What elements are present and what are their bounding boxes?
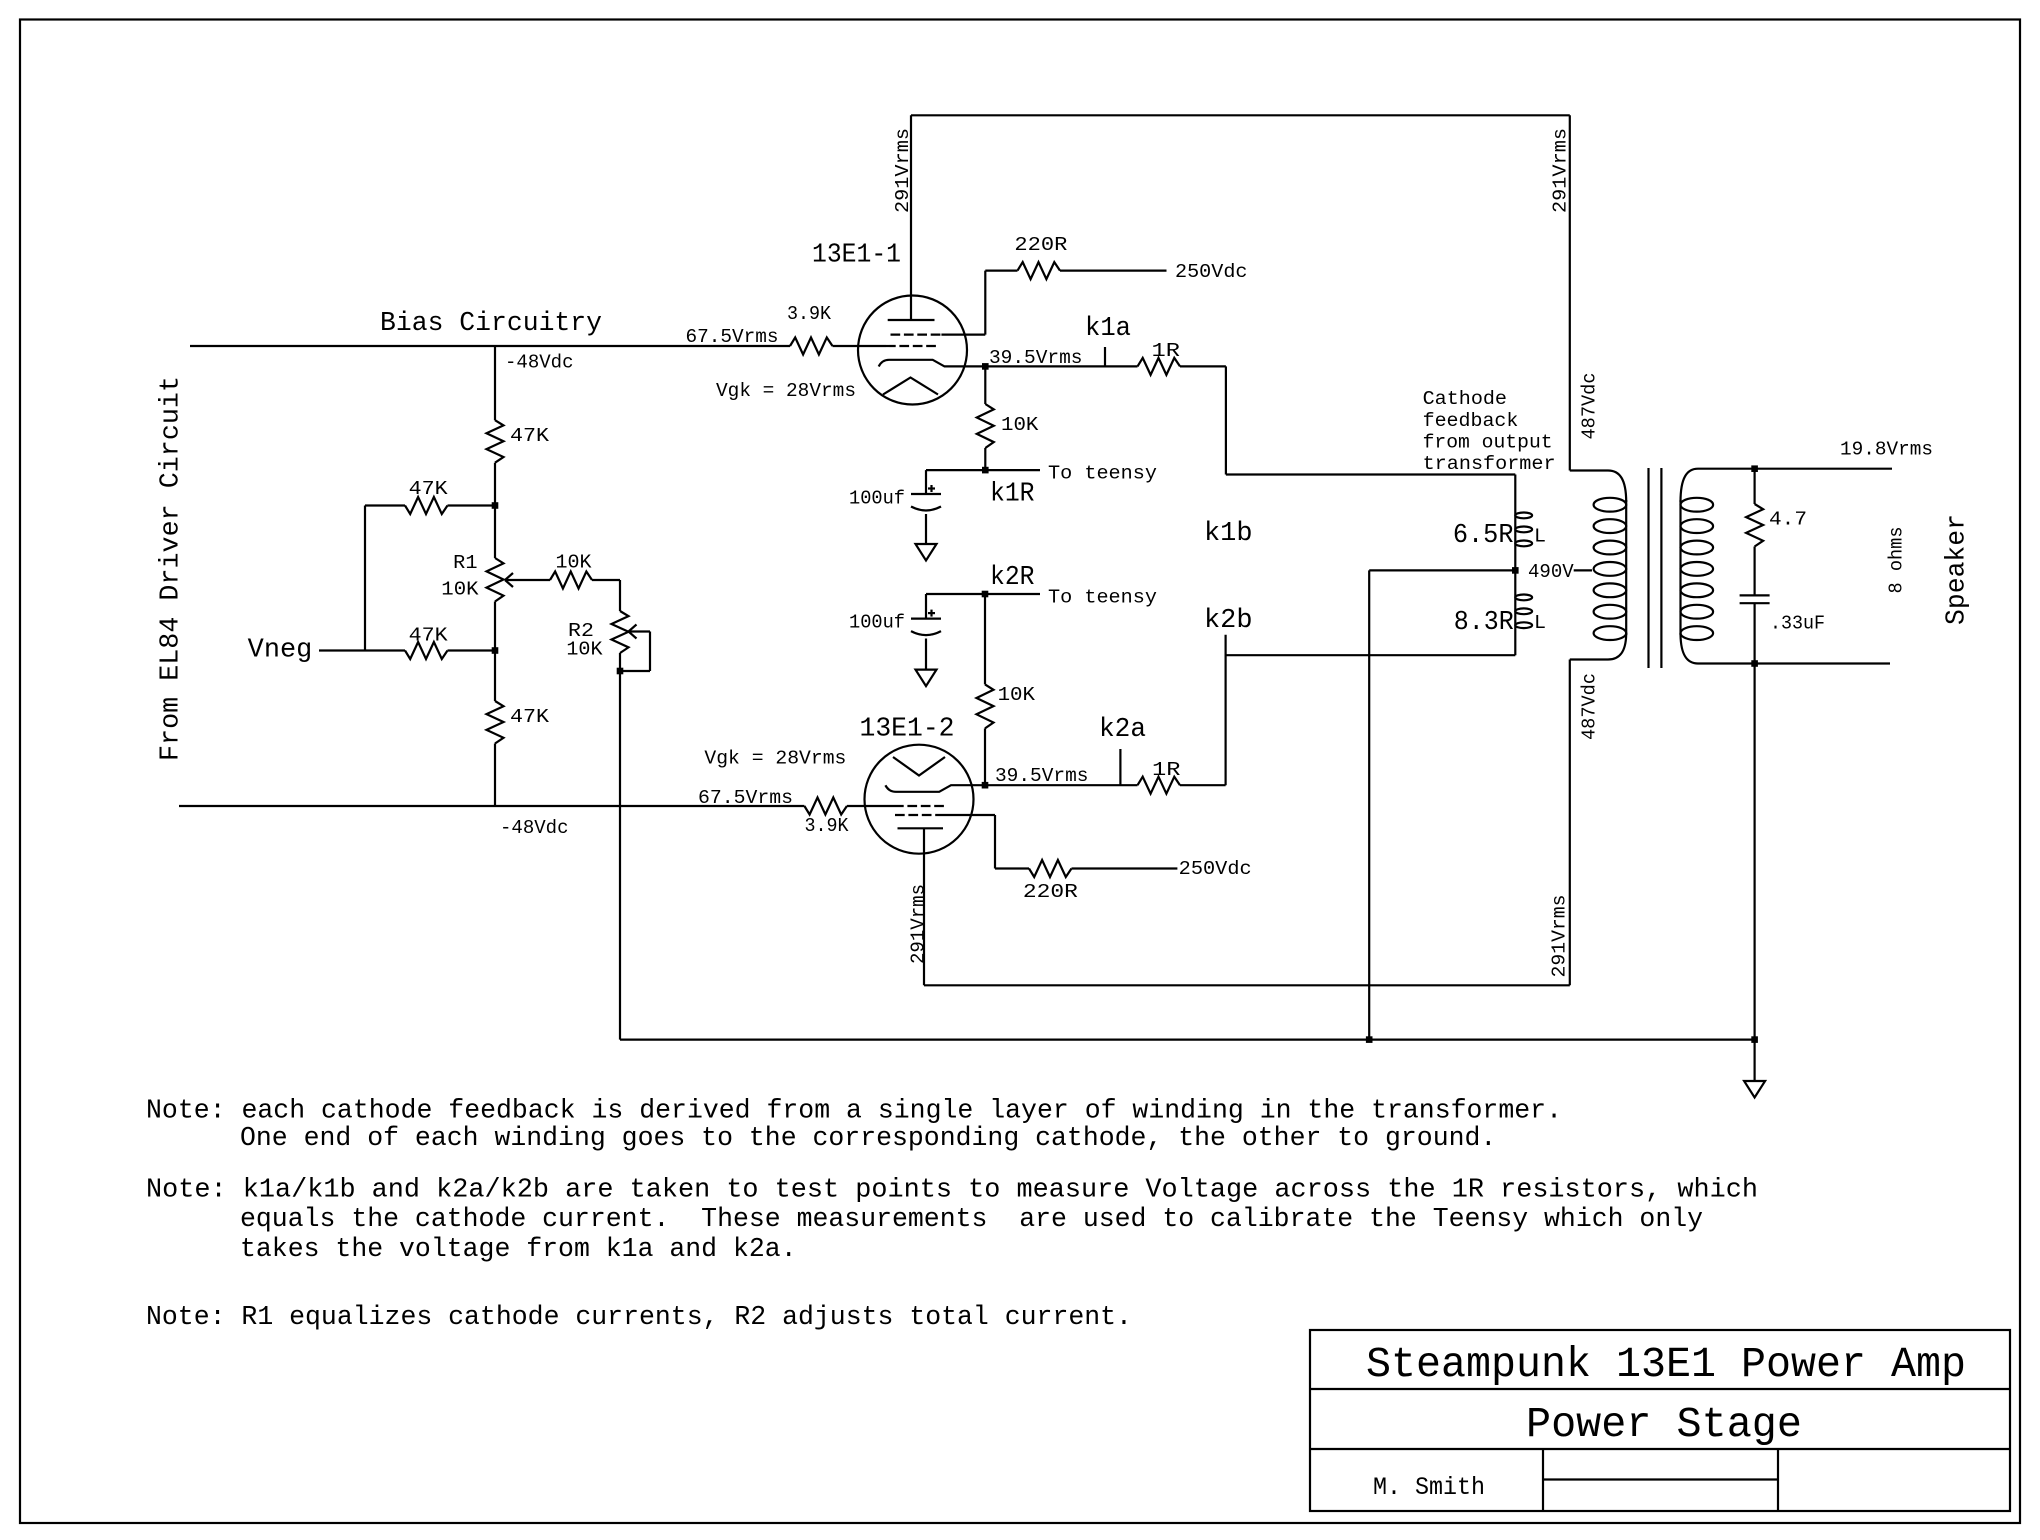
wire feedback tap line [1514,475,1516,656]
wiper arrow R2 loop [629,625,637,639]
junction node bias A [492,502,499,509]
svg-text:takes the voltage from k1a and: takes the voltage from k1a and k2a. [240,1234,797,1264]
title block divider v1 [1542,1449,1544,1511]
svg-text:Cathode: Cathode [1423,388,1507,410]
wire k2b riser [1224,635,1226,786]
svg-text:feedback: feedback [1423,410,1519,432]
resistor 10K tube2 upper lead [984,594,986,684]
wire screen2 to 220R [995,867,1029,869]
wire node k1R horizontal [926,469,1040,471]
svg-text:Note: each cathode feedback is: Note: each cathode feedback is derived f… [146,1096,1562,1126]
junction node feedback-rail [1366,1036,1373,1043]
wire tube1 anode riser [910,115,912,320]
title block divider 1 [1310,1388,2010,1390]
wire secondary top to speaker [1755,468,1892,470]
resistor 47K Vneg horizontal [405,642,448,659]
wire secondary bottom to speaker [1755,662,1890,664]
svg-text:L: L [1534,526,1546,548]
svg-text:One end of each winding goes t: One end of each winding goes to the corr… [240,1123,1496,1153]
svg-text:291Vrms: 291Vrms [908,884,930,964]
svg-text:250Vdc: 250Vdc [1179,858,1252,880]
wire cathode2 to 1R lower [985,784,1138,786]
title block divider v2 [1777,1449,1779,1511]
wire bias divider vertical upper [494,346,496,420]
wire right riser lower [1569,660,1571,986]
resistor 4.7 zobel lead [1753,469,1755,504]
tube1 anode plate [888,319,935,321]
tube1 heater filament [883,378,938,395]
junction node k1R [982,467,989,474]
svg-text:Steampunk 13E1 Power Amp: Steampunk 13E1 Power Amp [1366,1340,1966,1389]
svg-text:10K: 10K [566,639,602,661]
svg-text:291Vrms: 291Vrms [892,128,914,213]
svg-text:Vgk = 28Vrms: Vgk = 28Vrms [716,380,856,402]
capacitor 100uf upper C1 [925,470,927,494]
svg-text:47K: 47K [409,478,448,500]
tube 13E1-1 envelope U1 [858,296,967,405]
svg-text:10K: 10K [998,684,1036,706]
svg-text:47K: 47K [510,706,549,728]
svg-text:Vgk = 28Vrms: Vgk = 28Vrms [704,748,846,770]
svg-text:equals the cathode current. T: equals the cathode current. These measur… [240,1204,1703,1234]
svg-text:Note: R1 equalizes cathode cur: Note: R1 equalizes cathode currents, R2 … [146,1302,1132,1332]
wire tube2 anode drop [923,828,925,985]
resistor 10K tube2 [977,684,994,728]
tube2 heater filament [893,757,945,776]
svg-text:100uf: 100uf [849,488,905,510]
ground symbol cap1 [916,544,937,561]
svg-text:67.5Vrms: 67.5Vrms [686,326,779,348]
svg-text:1R: 1R [1152,759,1181,781]
node k1a tick [1104,347,1106,366]
svg-text:8 ohms: 8 ohms [1886,527,1908,594]
svg-text:19.8Vrms: 19.8Vrms [1840,439,1933,461]
junction node secondary bottom [1751,660,1758,667]
svg-text:291Vrms: 291Vrms [1550,128,1572,213]
wire R1 to Vneg junction [494,602,496,651]
svg-text:-48Vdc: -48Vdc [505,352,574,374]
svg-text:k2R: k2R [990,562,1035,592]
transformer T1 secondary loops [1681,498,1714,512]
resistor 47K bottom vertical [487,701,504,744]
resistor 10K tube1 cathode upper lead [984,366,986,404]
wire screen to 220R [985,270,1017,272]
junction node rail-ground [1751,1036,1758,1043]
junction node tube1 cathode [982,363,989,370]
junction node k2R [982,591,989,598]
svg-text:6.5R: 6.5R [1453,520,1514,550]
svg-text:10K: 10K [556,552,592,574]
svg-text:k1b: k1b [1204,518,1253,548]
wire top B+ rail [911,114,1570,116]
wire left loop vertical [364,506,366,651]
tube1 cathode [879,360,986,367]
wire 47K bottom to lower rail [494,744,496,807]
wire cap to secondary bottom [1753,603,1755,663]
junction node R2 wiper [617,668,624,675]
svg-text:R1: R1 [453,552,477,574]
svg-text:k1R: k1R [990,479,1035,509]
svg-text:transformer: transformer [1423,453,1556,475]
title block divider 2 [1310,1448,2010,1450]
svg-text:291Vrms: 291Vrms [1549,895,1571,978]
tube1 control grid dashed [886,345,936,347]
resistor 10K tube1 cathode [977,404,994,448]
svg-text:220R: 220R [1023,881,1078,903]
wire 10K to R2 corner [592,579,620,581]
svg-text:487Vdc: 487Vdc [1579,373,1601,440]
transformer T1 secondary entry [1681,469,1755,502]
svg-text:To teensy: To teensy [1048,463,1157,485]
svg-text:Speaker: Speaker [1942,514,1972,625]
transformer T1 primary loops [1594,498,1627,512]
winding 6.5R loops [1515,513,1532,519]
title block outer box [1310,1330,2010,1511]
wire ground stub [1753,1040,1755,1081]
resistor 4.7 zobel [1746,504,1763,547]
wire bias lower rail -48Vdc [179,805,804,807]
svg-text:.33uF: .33uF [1770,613,1825,635]
transformer T1 core [1647,468,1649,668]
junction node 490V tap [1512,567,1519,574]
wire right riser to transformer [1569,115,1571,470]
resistor 220R upper [1018,262,1061,279]
svg-text:3.9K: 3.9K [787,303,831,325]
winding 8.3R loops [1515,595,1532,601]
transformer T1 primary spine [1625,500,1627,635]
wire bottom B+ run [924,984,1570,986]
wire Vneg lead [319,649,405,651]
wire 10K to node k1R [984,448,986,470]
svg-text:10K: 10K [1001,414,1039,436]
wire k1b riser [1225,366,1227,474]
svg-text:Vneg: Vneg [248,635,313,665]
resistor 3.9K lower [804,798,847,815]
tube2 anode plate [898,827,944,829]
svg-text:M. Smith: M. Smith [1373,1473,1485,1502]
tube2 control grid dashed [894,805,944,807]
svg-text:39.5Vrms: 39.5Vrms [995,765,1089,787]
svg-text:487Vdc: 487Vdc [1579,673,1601,740]
transformer T1 secondary exit [1681,633,1755,664]
wire k2b to 8.3R winding bottom [1226,654,1516,656]
resistor 1R upper [1138,358,1181,375]
junction node secondary top [1751,465,1758,472]
wire 1R to corner [1180,365,1226,367]
transformer T1 secondary spine [1679,500,1681,635]
resistor 1R lower [1138,777,1181,794]
svg-text:From EL84 Driver Circuit: From EL84 Driver Circuit [156,376,186,761]
transformer T1 primary exit [1570,633,1626,660]
ground symbol cap2 [916,670,937,687]
svg-text:3.9K: 3.9K [805,815,849,837]
capacitor .33uF plates [1740,594,1770,596]
potentiometer R2 10K element [612,611,629,653]
svg-text:L: L [1534,612,1546,634]
wire 220R to 250Vdc lower [1072,867,1178,869]
wire 47K to junction A [448,504,496,506]
svg-text:67.5Vrms: 67.5Vrms [698,787,793,809]
svg-text:1R: 1R [1152,340,1181,362]
wire feedback to ground rail vertical [1368,570,1370,1039]
wire junction B to 47K bottom [494,651,496,702]
svg-text:47K: 47K [510,425,549,447]
wire 4.7 to cap [1753,547,1755,596]
potentiometer R1 10K element [487,558,504,602]
wire tube2 screen lead [943,814,995,816]
svg-text:Bias Circuitry: Bias Circuitry [380,308,602,338]
junction node tube2 cathode [982,782,989,789]
wire 47K to R1 [494,463,496,558]
svg-text:13E1-1: 13E1-1 [812,240,901,270]
title block divider mid [1543,1478,1778,1480]
wire 10K2 to cathode2 [984,728,986,785]
svg-text:100uf: 100uf [849,612,905,634]
wire 490V dash to winding [1574,569,1592,571]
resistor 47K top vertical [487,420,504,463]
svg-text:8.3R: 8.3R [1454,607,1514,637]
svg-text:k2a: k2a [1099,714,1146,744]
wiper arrow R1 [505,573,513,587]
wire cap2 to ground [925,639,927,670]
svg-text:10K: 10K [441,579,479,601]
wire 3.9K to tube2 grid [847,805,894,807]
wire R2 down to ground rail [619,653,621,1040]
svg-text:220R: 220R [1014,234,1067,256]
tube2 cathode [885,785,985,792]
svg-text:To teensy: To teensy [1048,587,1157,609]
tube 13E1-2 envelope U2 [865,745,974,854]
wire ground rail [620,1038,1755,1040]
svg-text:490V: 490V [1528,561,1574,583]
svg-text:Power Stage: Power Stage [1526,1400,1802,1449]
wire 220R to 250Vdc [1060,270,1167,272]
svg-text:k1a: k1a [1085,313,1131,343]
transformer T1 primary entry [1570,471,1626,503]
wire cap1 to ground [925,514,927,544]
junction node Vneg B [492,647,499,654]
wire secondary bottom to ground rail [1753,664,1755,1040]
svg-text:k2b: k2b [1204,605,1253,635]
resistor 220R lower [1029,860,1072,877]
svg-text:-48Vdc: -48Vdc [500,817,569,839]
tube2 screen grid dashed [895,814,943,816]
svg-text:Note: k1a/k1b and k2a/k2b are: Note: k1a/k1b and k2a/k2b are taken to t… [146,1175,1758,1205]
resistor 47K left upper horizontal [405,497,448,514]
svg-text:13E1-2: 13E1-2 [860,714,955,744]
svg-text:250Vdc: 250Vdc [1175,261,1248,283]
svg-text:4.7: 4.7 [1769,509,1807,531]
svg-text:from output: from output [1423,432,1553,454]
ground symbol main [1744,1081,1765,1098]
capacitor 100uf lower C2 [925,594,927,619]
node k2a tick [1119,749,1121,785]
wire k1b to 6.5R winding top [1226,473,1515,475]
tube1 screen grid dashed [891,334,942,336]
svg-text:47K: 47K [409,625,448,647]
wire cathode to 1R upper [985,365,1137,367]
wire 3.9K to tube1 grid [833,345,887,347]
wire bias upper rail -48Vdc [190,345,790,347]
resistor 10K horizontal [550,572,592,589]
wire node k2R horizontal [926,593,1040,595]
resistor 3.9K upper [790,338,833,355]
wire 47K Vneg to junction B [448,649,496,651]
wire tube1 screen lead [941,334,985,336]
wire corner to 47K left-upper [365,504,405,506]
wire 1R lower to corner [1180,784,1226,786]
wire feedback to ground rail horizontal [1369,569,1515,571]
